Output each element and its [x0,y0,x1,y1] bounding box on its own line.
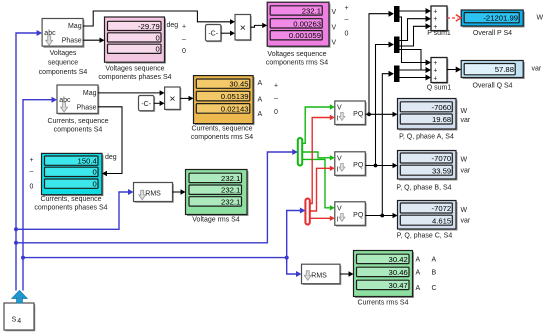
svg-text:P sum1: P sum1 [427,30,451,37]
arrowhead into D10 [393,213,398,218]
svg-text:30.47: 30.47 [389,281,408,290]
wire: C2 to product P2 [154,102,160,104]
arrowhead into M1 [389,11,395,17]
junction node on V bus (y=243) [14,241,18,245]
arrowhead into M2 [389,42,395,48]
svg-text:0: 0 [345,31,349,38]
svg-text:var: var [461,117,471,124]
junction node on PQ2 line [374,164,378,168]
svg-text:150.4: 150.4 [78,157,98,166]
arrowhead into P2 in2 [160,101,165,106]
arrowhead Q sum1 in3 [426,75,432,81]
svg-text:57.88: 57.88 [495,65,514,74]
product P2: x (current) [165,87,182,111]
svg-text:B: B [432,270,437,277]
svg-text:232.1: 232.1 [221,197,240,206]
svg-text:C: C [432,285,437,292]
svg-text:×: × [240,22,246,34]
phase labels A B C (D11) [432,257,437,292]
green arrowhead PQ1 V [330,104,335,109]
block S4: source subsystem [4,303,35,331]
svg-text:+: + [433,75,437,82]
wire: RMS1 to D5 [173,191,181,193]
wire: Q sum1 to D7 [447,69,456,71]
display D10: P, Q, phase C, S4 [398,201,458,231]
svg-text:A: A [416,270,421,277]
svg-text:19.68: 19.68 [432,115,451,124]
svg-text:-7070: -7070 [432,154,452,163]
svg-text:Q sum1: Q sum1 [427,85,452,92]
svg-text:0.05139: 0.05139 [221,92,249,101]
arrowhead Q sum1 in1 [426,60,432,66]
svg-text:A: A [432,257,437,264]
display D6: Overall P S4 (deep cyan) [461,10,525,28]
svg-text:+: + [274,83,278,90]
svg-text:components S4: components S4 [54,127,103,134]
svg-text:RMS: RMS [145,190,161,197]
arrowhead into D2 [262,23,267,28]
svg-text:+: + [29,157,33,164]
svg-text:var: var [461,218,471,225]
junction node on V bus (y=230) [14,227,18,231]
label for D3 [191,126,253,142]
svg-text:PQ: PQ [353,212,364,219]
unit labels A (D11) [416,257,421,292]
svg-text:0: 0 [274,109,278,116]
svg-text:deg: deg [105,154,117,161]
display D8: P, Q, phase A, S4 [398,99,458,131]
unit labels W var (D8) [461,108,471,124]
display D4: Currents, sequence components phases S4 (cyan) [42,153,104,196]
cyan output arrow of S4 [12,291,27,304]
wire: P1 to D2 [251,25,263,27]
label for D4 [34,196,107,212]
wire: U1 Mag to product [83,11,230,26]
arrowhead into RMS2 [296,271,302,277]
arrowhead into D11 [349,271,354,276]
wire: M2 upper out to P sum1 in3 [400,26,427,46]
arrowhead into U1 [37,30,43,36]
svg-text:30.42: 30.42 [389,255,408,264]
display D9: P, Q, phase B, S4 [398,151,458,181]
wire: M2 P out to P sum1 in2 [400,19,427,41]
arrowhead into P2 in1 [160,90,165,95]
svg-text:Phase: Phase [77,104,97,111]
wire: green demux out2 to PQ2 V [302,152,330,158]
wire: red demux out1 to PQ1 I [310,118,331,204]
svg-text:V: V [332,40,337,47]
green arrowhead PQ3 V [330,205,335,210]
svg-text:V: V [332,9,337,16]
sum block SUM1: P sum1 [431,6,448,32]
wire: P sum1 to D6 (red dashed test point) [447,17,458,19]
svg-text:33.59: 33.59 [432,166,451,175]
svg-text:+: + [182,24,186,31]
svg-text:-21201.99: -21201.99 [483,14,518,23]
svg-text:components phases S4: components phases S4 [34,205,107,212]
arrowhead into U2 [52,97,58,103]
svg-text:Overall Q S4: Overall Q S4 [472,83,512,90]
block U2: Currents, sequence components S4 [57,85,99,115]
display D1: Voltages sequence components phases S4 (pink) [105,17,167,64]
svg-text:232.1: 232.1 [221,174,240,183]
svg-text:Mag: Mag [68,23,82,30]
wire: P2 to D3 [180,97,189,99]
svg-text:I: I [337,116,339,123]
wire: V bus to voltage RMS [16,192,129,229]
arrowhead into D8 [393,112,398,117]
wire: M1 Q out to Q sum1 in1 [400,17,427,63]
svg-text:+: + [433,9,437,16]
arrowhead into D5 [181,189,186,194]
svg-text:+: + [344,5,348,12]
junction node at I bus riser [285,256,289,260]
constant C1: -C- [206,25,223,43]
wire: PQ3 output to D10 [365,215,392,217]
svg-text:I: I [337,216,339,223]
svg-text:-29.79: -29.79 [138,22,160,31]
display D3: Currents, sequence components rms S4 (orange) [194,76,255,126]
svg-text:W: W [461,157,468,164]
svg-text:components S4: components S4 [39,69,88,76]
svg-text:V: V [337,205,342,212]
svg-text:232.1: 232.1 [221,186,240,195]
red arrowhead PQ2 I [330,166,335,171]
arrowhead Q sum1 in2 [426,67,432,73]
svg-text:PQ: PQ [353,111,364,118]
demux bar M1 (P/Q split phase A) [394,6,400,22]
demux DG: green demux [298,138,302,166]
display D5: Voltage rms S4 (green) [186,170,249,217]
constant C2: -C- [139,96,156,112]
label for D2 [266,51,328,67]
svg-text:Currents, sequence: Currents, sequence [191,126,252,133]
svg-text:Overall P S4: Overall P S4 [473,30,512,37]
svg-text:-7072: -7072 [432,204,452,213]
arrowhead into D4 (pointing left) [102,171,107,176]
svg-text:4: 4 [17,318,21,325]
svg-text:Mag: Mag [83,90,97,97]
svg-text:components rms S4: components rms S4 [266,60,328,67]
svg-text:components rms S4: components rms S4 [191,134,253,141]
label for U2 [47,118,108,134]
junction node on I bus (y=258) [21,256,25,260]
svg-text:P, Q, phase B, S4: P, Q, phase B, S4 [396,185,451,192]
svg-text:A: A [416,285,421,292]
wire: U1 Phase to D1 [83,39,100,41]
svg-text:sequence: sequence [48,60,78,67]
label for U1 [39,50,88,76]
svg-text:+: + [433,68,437,75]
wire: red demux out3 to PQ3 I [310,217,331,219]
svg-text:0: 0 [156,45,160,54]
arrowhead into D7 [456,67,462,73]
wire: PQ1 output to D8 [365,113,392,115]
wire: U2 Phase to D4 (down and left) [98,107,122,174]
red arrowhead into D6 [456,15,461,22]
arrowhead into D3 [189,96,194,101]
svg-text:0.001059: 0.001059 [289,31,321,40]
svg-text:×: × [169,93,175,105]
wire: S4 I bus vertical [23,100,52,291]
wire: M3 out to Q sum1 in3 [400,77,427,79]
arrowhead into RMS1 [128,189,134,195]
svg-text:+: + [433,16,437,23]
unit labels V (D2) [332,9,337,47]
wire: RMS2 to D11 [340,273,349,275]
arrowhead into D1 [100,38,105,43]
svg-text:V: V [337,155,342,162]
junction node on PQ1 line [367,112,371,116]
svg-text:W: W [461,207,468,214]
svg-text:Voltages: Voltages [50,50,77,57]
arrowhead P sum1 in1 [426,8,432,14]
svg-text:Phase: Phase [62,38,82,45]
arrowhead into red demux [300,208,306,214]
arrowhead into P1 in2 [230,31,235,36]
block PQ3: Power (phase C) [335,202,367,227]
block PQ1: Power (phase A) [335,101,367,126]
svg-text:A: A [258,97,263,104]
arrowhead P sum1 in2 [426,16,432,22]
unit labels A (D3) [258,80,263,118]
sign labels + - 0 (D2) [344,5,348,38]
svg-text:0: 0 [93,168,97,177]
wire: C1 to product P1 [221,32,230,34]
wire: riser phase A to demux bar M1 [369,14,389,115]
svg-text:–: – [182,36,186,43]
svg-text:Currents rms S4: Currents rms S4 [358,300,409,307]
svg-text:W: W [461,108,468,115]
svg-text:30.45: 30.45 [229,80,248,89]
svg-text:0: 0 [30,183,34,190]
red arrowhead PQ3 I [330,216,335,221]
unit labels W var (D10) [461,207,471,225]
svg-text:–: – [345,16,349,23]
svg-text:components phases S4: components phases S4 [98,74,171,81]
demux bar M3 (P/Q split phase C) [394,66,400,83]
svg-text:0.00263: 0.00263 [293,19,321,28]
green arrowhead PQ2 V [330,155,335,160]
product P1: x (voltage) [235,15,252,42]
wire: M2 lower out toward Q sum1 in2 [400,50,422,71]
wire: I bus drop to currents RMS [287,258,297,274]
block RMS2: Currents RMS [302,264,342,285]
svg-text:I: I [337,166,339,173]
svg-text:A: A [416,257,421,264]
svg-text:deg: deg [167,22,179,29]
display D2: Voltages sequence components rms S4 (magenta) [267,2,330,48]
sum block SUM2: Q sum1 [431,58,448,84]
svg-text:-C-: -C- [141,101,151,108]
arrowhead into P1 in1 [230,19,235,24]
svg-text:30.46: 30.46 [389,268,408,277]
svg-text:RMS: RMS [311,272,327,279]
block U1: Voltages sequence components S4 [42,19,84,48]
wire: M3 out to Q sum1 in2 [400,69,427,71]
wire: U2 Mag to product P2 [98,92,160,94]
display D11: Currents rms S4 (green) [354,251,415,299]
svg-text:Voltage rms S4: Voltage rms S4 [192,217,240,224]
svg-text:+: + [433,60,437,67]
svg-text:S: S [12,316,17,323]
wire: green demux out1 to PQ1 V [302,107,330,143]
wire: riser phase C to demux bar M3 [382,74,388,216]
arrowhead into M3 [389,71,395,77]
wire: red demux out2 to PQ2 I [310,168,331,211]
label for D1 [98,66,171,82]
display D7: Overall Q S4 (light blue) [461,61,525,80]
red arrowhead PQ1 I [330,115,335,120]
svg-text:0.02143: 0.02143 [221,104,249,113]
svg-text:Voltages sequence: Voltages sequence [267,51,326,58]
svg-text:232.1: 232.1 [302,6,321,15]
wire: I bus riser to red demux [287,211,301,258]
svg-text:PQ: PQ [353,162,364,169]
block PQ2: Power (phase B) [335,152,367,177]
svg-text:0: 0 [182,48,186,55]
svg-text:–: – [30,169,34,176]
sign labels + - 0 (D4) [29,157,33,190]
wire: I bus long horizontal [23,257,287,259]
svg-text:Currents, sequence: Currents, sequence [47,118,108,125]
block RMS1: Voltage RMS [134,183,174,203]
arrowhead into green demux [292,149,298,155]
svg-text:Voltages sequence: Voltages sequence [105,66,164,73]
sign labels + - 0 (D3) [274,83,278,116]
svg-text:Currents, sequence: Currents, sequence [40,196,101,203]
sign labels + - 0 (D1) [182,24,186,55]
junction node on PQ3 line [380,214,384,218]
svg-text:0: 0 [93,180,97,189]
wire: riser phase B to demux bar M2 [376,45,389,166]
svg-text:var: var [461,168,471,175]
wire: V bus to green demux [16,152,293,243]
unit labels W var (D9) [461,157,471,175]
svg-text:V: V [332,25,337,32]
demux bar M2 (P/Q split phase B) [394,37,400,54]
svg-text:4.615: 4.615 [432,216,451,225]
svg-text:V: V [337,105,342,112]
wire: PQ2 output to D9 [365,165,392,167]
svg-text:P, Q, phase A, S4: P, Q, phase A, S4 [399,134,454,141]
svg-text:-C-: -C- [208,31,218,38]
svg-text:var: var [532,66,542,73]
svg-text:A: A [258,80,263,87]
wire: M1 P out to P sum1 in1 [400,10,427,12]
svg-text:A: A [258,111,263,118]
svg-text:–: – [274,95,278,102]
wire: S4 V bus vertical [16,33,37,291]
svg-text:W: W [537,15,544,22]
arrowhead into D9 [393,163,398,168]
svg-text:0: 0 [156,33,160,42]
demux DR: red demux [305,199,309,225]
svg-text:P, Q, phase C, S4: P, Q, phase C, S4 [397,233,453,240]
svg-text:-7060: -7060 [432,103,452,112]
wire: green demux out3 to PQ3 V [302,159,330,207]
arrowhead P sum1 in3 [426,23,432,29]
